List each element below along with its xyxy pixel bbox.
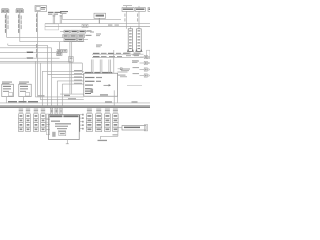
pin labels (90, 32, 102, 48)
multi-pin bracket (80, 114, 84, 132)
ladder connector (46, 114, 49, 135)
labels under K1 K2 (124, 53, 141, 57)
wire from TC (98, 18, 100, 23)
bus wire y63 with corner (0, 63, 82, 73)
bus wire y52.4 with label (0, 52, 56, 53)
connector strip R3 (105, 109, 111, 132)
harness band (0, 105, 150, 108)
wire from B1 with labels (36, 12, 38, 97)
switch SW1 right edge (133, 55, 150, 59)
ECU output label (100, 94, 108, 95)
wire drop from M1 (5, 97, 7, 103)
wire drop x40.3 (39, 63, 41, 100)
JB ground drop (66, 140, 69, 144)
branch drop x51.5 (51, 48, 53, 78)
inline connector on bus (82, 24, 88, 27)
wire drop to bus (61, 14, 63, 20)
ECU pin pair 1 (91, 60, 93, 74)
tick to K2 (138, 27, 140, 29)
wire from BR (101, 128, 123, 140)
fuse box F1 (122, 5, 134, 11)
connector strip R1 (87, 109, 93, 132)
switch SW2 right edge (133, 61, 150, 65)
connector C1 (2, 8, 9, 13)
tall connector K1 (127, 29, 134, 52)
junction box B1 (35, 6, 47, 12)
ECU pin pair 2 (100, 60, 102, 74)
wire from F1 with label (124, 11, 126, 29)
label with lead line (117, 72, 128, 78)
wire from F2 with label (137, 11, 139, 29)
main wire y103 (0, 101, 150, 103)
relay row R3 (64, 38, 88, 41)
staircase wire 4 (57, 80, 84, 106)
bus wire y58.2 with label (0, 57, 60, 58)
switch SW3 right edge (133, 67, 150, 71)
ECU lower text rows (85, 88, 93, 94)
ECU internal text (85, 77, 102, 86)
wire y94 (60, 94, 84, 96)
branch drop x47.5 (47, 45, 49, 74)
ECU right edge drop (117, 96, 119, 103)
ECU pin wire x113.8 (113, 50, 115, 73)
wire y96.9 (35, 96, 84, 98)
relay row R2 (63, 35, 92, 38)
underline wire (127, 85, 142, 87)
box around splice (45, 24, 59, 30)
twin wire down from relay (70, 41, 72, 94)
label on wire y99 (68, 98, 76, 99)
label block T2 (60, 11, 68, 14)
splice box on twin wire (69, 57, 74, 63)
staircase wire 5 (62, 83, 84, 106)
bus wire y41.7 (20, 41, 85, 43)
staircase wire 1 (42, 70, 84, 105)
wire drop x35.3 (34, 61, 36, 97)
component box M1 (2, 82, 14, 97)
junction block JB (49, 115, 80, 140)
connector C2 (16, 8, 23, 13)
pin pair P2 (60, 15, 63, 23)
ECU pin pair 3 (109, 60, 111, 74)
bus wire y26 (45, 26, 150, 28)
ECU arrow (104, 84, 112, 86)
ECU box (84, 72, 118, 96)
tall connector K2 (135, 29, 142, 52)
label near x37 corner (38, 95, 45, 96)
edge box (147, 50, 150, 58)
bus wire y19 (62, 18, 121, 20)
connector strip L2 (26, 109, 31, 132)
wire drop x114 (113, 90, 115, 105)
JB stubs (46, 118, 49, 126)
bus wire y45.3 with jog (8, 44, 48, 46)
relay box TC (94, 13, 106, 18)
label block above pins (48, 12, 62, 15)
connector strip L1 (19, 109, 24, 132)
connector subcluster (57, 42, 67, 56)
pin pair P1 (53, 15, 56, 23)
label squiggle (120, 69, 130, 72)
component box M2 (19, 82, 31, 97)
connector strip R4 (113, 109, 118, 132)
bus wire y23 (45, 24, 150, 26)
switch SW4 right edge (133, 73, 150, 77)
wire y99.6 (40, 99, 84, 101)
tick to K1 (129, 27, 131, 29)
bus wire y61.4 (0, 60, 71, 62)
connector strip L3 (34, 109, 39, 132)
staircase wire 3 (52, 76, 84, 105)
labelled wire y54 right (92, 53, 144, 54)
connector strip R2 (96, 109, 102, 132)
wire from C2 with label (18, 13, 22, 42)
ECU stub to terminal (118, 68, 123, 70)
connector strip L4 (41, 109, 46, 132)
relay row R1 (60, 30, 92, 33)
relay box BR (122, 125, 148, 131)
wire from C1 with label (5, 13, 9, 38)
fuse box F3 (148, 8, 152, 12)
labelled wire y57.4 right (92, 56, 144, 57)
bus wire y37.4 (7, 36, 63, 38)
inline connector left pair (56, 52, 60, 56)
sub connectors above box (50, 108, 62, 114)
wire drop from M2 (23, 97, 25, 103)
bus wire y47.8 (0, 47, 52, 49)
label rows right (132, 60, 139, 63)
staircase wire 2 (48, 73, 84, 105)
label under strips (98, 140, 108, 141)
fuse box F2 (135, 6, 145, 11)
